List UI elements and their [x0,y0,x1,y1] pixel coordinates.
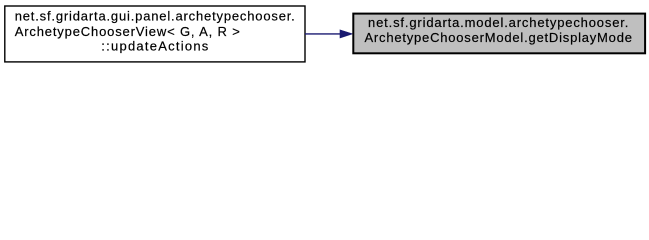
arrowhead [340,30,353,38]
node: ArchetypeChooserView::updateActions (caller box) [5,6,305,62]
svg-text:net.sf.gridarta.model.archetyp: net.sf.gridarta.model.archetypechooser. [368,15,628,30]
svg-text:ArchetypeChooserModel.getDispl: ArchetypeChooserModel.getDisplayMode [364,30,632,45]
node: ArchetypeChooserModel.getDisplayMode (current/highlighted box) [353,14,645,54]
svg-text:net.sf.gridarta.gui.panel.arch: net.sf.gridarta.gui.panel.archetypechoos… [15,8,295,23]
svg-text:::updateActions: ::updateActions [101,38,209,53]
svg-text:ArchetypeChooserView< G, A, R: ArchetypeChooserView< G, A, R > [15,24,240,39]
wire: call edge from updateActions to getDisplayMode [305,33,341,35]
